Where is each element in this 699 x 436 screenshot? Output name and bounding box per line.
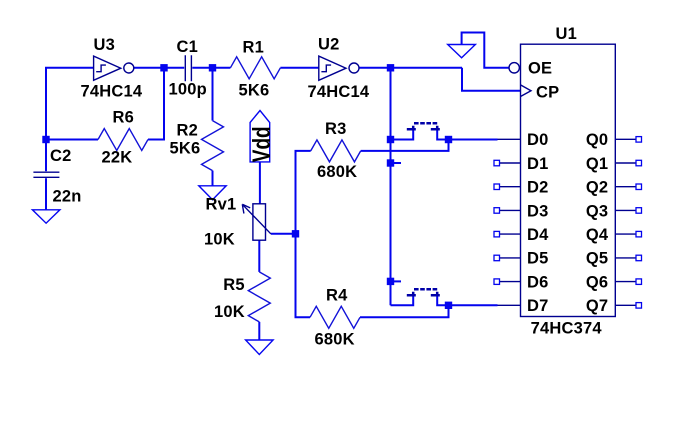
potentiometer Rv1 wiper arrow xyxy=(242,204,270,234)
wire pot bottom to R5 xyxy=(258,240,260,272)
junction bus stub D6 row xyxy=(387,278,394,285)
svg-text:Q7: Q7 xyxy=(586,297,608,315)
junction U2 out / bus xyxy=(387,64,394,71)
ground at OE net xyxy=(448,45,476,58)
pin Q2 stub xyxy=(615,186,636,188)
svg-text:D2: D2 xyxy=(527,179,549,197)
wire CP route to U1 xyxy=(462,68,521,91)
inverter U3 hysteresis glyph xyxy=(96,65,106,72)
pin D4 open square xyxy=(494,231,500,237)
wire C1 to R1 xyxy=(192,67,230,69)
resistor R2 zigzag xyxy=(202,121,224,171)
wire U2 output to CP bend xyxy=(359,67,462,69)
svg-text:10K: 10K xyxy=(204,231,235,249)
pin D4 stub xyxy=(500,233,521,235)
svg-text:D1: D1 xyxy=(527,155,549,173)
wire R2 bottom to ground xyxy=(212,171,214,186)
wire R6 right riser xyxy=(148,68,164,140)
svg-text:Rv1: Rv1 xyxy=(206,196,237,214)
pin OE bubble xyxy=(509,63,519,73)
svg-text:U1: U1 xyxy=(556,25,578,43)
inverter U2 bubble xyxy=(349,63,359,73)
inverter U2 hysteresis glyph xyxy=(321,65,331,72)
wire pot wiper to rail junction xyxy=(271,233,296,235)
switch SW2 contact bars xyxy=(407,292,440,296)
wire Vdd stem to pot xyxy=(259,162,261,204)
svg-text:R3: R3 xyxy=(325,120,347,138)
svg-text:D7: D7 xyxy=(527,297,549,315)
pin Q2 open square xyxy=(636,184,642,190)
wire R5 bottom to ground xyxy=(258,322,260,340)
svg-text:U2: U2 xyxy=(318,35,340,53)
svg-text:OE: OE xyxy=(528,60,552,78)
svg-text:10K: 10K xyxy=(214,303,245,321)
svg-text:100p: 100p xyxy=(169,80,207,98)
svg-text:R2: R2 xyxy=(177,122,199,140)
pin Q0 open square xyxy=(636,137,642,143)
wire C2 bottom to ground xyxy=(45,178,47,210)
pin Q3 open square xyxy=(636,208,642,214)
inverter U3 bubble xyxy=(124,63,134,73)
svg-text:Q1: Q1 xyxy=(586,155,608,173)
pin D0 stub xyxy=(498,138,521,140)
pin Q1 stub xyxy=(615,162,636,164)
pin D2 stub xyxy=(500,186,521,188)
resistor R5 zigzag xyxy=(248,272,270,322)
wire U3 input from node A xyxy=(46,68,94,141)
pin D5 open square xyxy=(494,255,500,261)
power flag Vdd xyxy=(250,111,270,162)
switch SW1 contact bars xyxy=(407,126,440,130)
wire switch SW1 right lead xyxy=(437,130,448,140)
svg-text:Q5: Q5 xyxy=(586,250,608,268)
pin D3 stub xyxy=(500,209,521,211)
wire stub at D6 row xyxy=(391,280,402,282)
IC U1 body xyxy=(521,44,616,316)
svg-text:U3: U3 xyxy=(94,36,116,54)
junction SW2 / R4 / D7 xyxy=(445,302,452,309)
switch SW1 actuator dashes xyxy=(414,122,437,125)
wire R3 left rail to R4 left xyxy=(296,151,311,317)
pin Q6 open square xyxy=(636,279,642,285)
svg-text:Q4: Q4 xyxy=(586,226,609,244)
svg-text:R4: R4 xyxy=(326,287,348,305)
wire R4 right to D7 node xyxy=(360,305,449,317)
pin Q7 open square xyxy=(636,303,642,309)
wire switch SW2 right lead xyxy=(437,296,448,305)
svg-text:680K: 680K xyxy=(317,163,357,181)
wire U3 output to C1 xyxy=(134,67,184,69)
resistor R3 zigzag xyxy=(311,140,361,162)
junction C1 / R1 / R2 xyxy=(209,64,216,71)
wire R2 top drop xyxy=(212,68,214,121)
pin D6 open square xyxy=(494,279,500,285)
pin Q1 open square xyxy=(636,160,642,166)
capacitor C2 plates xyxy=(33,172,59,177)
resistor R4 zigzag xyxy=(310,306,360,328)
pin Q7 stub xyxy=(615,304,636,306)
wire R6 left xyxy=(46,139,98,141)
svg-text:C1: C1 xyxy=(177,38,199,56)
wire R1 to U2 input xyxy=(280,67,318,69)
pin Q0 stub xyxy=(615,138,636,140)
wire switch SW1 left lead xyxy=(391,130,414,140)
pin Q6 stub xyxy=(615,281,636,283)
ground under C2 xyxy=(32,210,60,223)
junction SW1 / R3 / D0 xyxy=(445,136,452,143)
switch SW2 actuator dashes xyxy=(414,288,437,291)
pin Q4 stub xyxy=(615,233,636,235)
ground under R5 xyxy=(246,340,274,355)
svg-text:R1: R1 xyxy=(243,39,265,57)
wire C2 top xyxy=(45,140,47,172)
svg-text:R6: R6 xyxy=(113,109,135,127)
wire node to D0 xyxy=(449,139,498,141)
svg-text:D6: D6 xyxy=(527,273,549,291)
pin D3 open square xyxy=(494,208,500,214)
svg-text:Q0: Q0 xyxy=(586,131,608,149)
svg-text:Q3: Q3 xyxy=(586,202,608,220)
pin D5 stub xyxy=(500,257,521,259)
ground under R2 xyxy=(199,186,226,200)
wire R3 right to D0 node xyxy=(361,140,449,151)
svg-text:680K: 680K xyxy=(315,331,355,349)
pin D7 stub xyxy=(498,304,521,306)
svg-text:74HC14: 74HC14 xyxy=(308,83,370,101)
svg-text:22n: 22n xyxy=(53,187,82,205)
junction node A (C2/R6) xyxy=(42,136,49,143)
wire stub at D1 row xyxy=(391,162,402,164)
svg-text:Q2: Q2 xyxy=(586,179,608,197)
pin CP clock wedge xyxy=(521,85,532,97)
inverter U2 triangle xyxy=(319,56,346,80)
resistor R1 zigzag xyxy=(230,57,280,79)
svg-text:CP: CP xyxy=(536,84,559,102)
svg-text:R5: R5 xyxy=(223,276,245,294)
junction bus / SW1 xyxy=(387,136,394,143)
pin Q4 open square xyxy=(636,231,642,237)
wire switch SW2 left lead xyxy=(391,296,414,305)
wire OE ground net xyxy=(462,33,510,68)
wire main vertical bus xyxy=(390,68,392,305)
potentiometer Rv1 body xyxy=(253,204,266,240)
svg-text:D3: D3 xyxy=(527,202,549,220)
junction bus stub D1 row xyxy=(387,159,394,166)
svg-text:5K6: 5K6 xyxy=(239,82,270,100)
pin D1 stub xyxy=(500,162,521,164)
svg-text:Q6: Q6 xyxy=(586,273,608,291)
resistor R6 zigzag xyxy=(98,129,148,151)
junction pot wiper / rail xyxy=(292,230,299,237)
pin D1 open square xyxy=(494,160,500,166)
svg-text:D5: D5 xyxy=(527,250,549,268)
svg-text:C2: C2 xyxy=(50,147,72,165)
wire node to D7 xyxy=(449,304,498,306)
svg-text:D4: D4 xyxy=(527,226,549,244)
junction U3 out / C1 / R6 xyxy=(160,64,167,71)
svg-text:74HC14: 74HC14 xyxy=(81,83,143,101)
svg-text:D0: D0 xyxy=(527,131,549,149)
pin D2 open square xyxy=(494,184,500,190)
pin D6 stub xyxy=(500,281,521,283)
pin Q3 stub xyxy=(615,209,636,211)
svg-text:22K: 22K xyxy=(102,149,133,167)
pin Q5 open square xyxy=(636,255,642,261)
svg-text:5K6: 5K6 xyxy=(170,139,201,157)
pin Q5 stub xyxy=(615,257,636,259)
svg-text:74HC374: 74HC374 xyxy=(531,320,603,338)
svg-text:Vdd: Vdd xyxy=(247,126,275,162)
inverter U3 triangle xyxy=(94,56,121,80)
capacitor C1 plates xyxy=(185,55,191,81)
